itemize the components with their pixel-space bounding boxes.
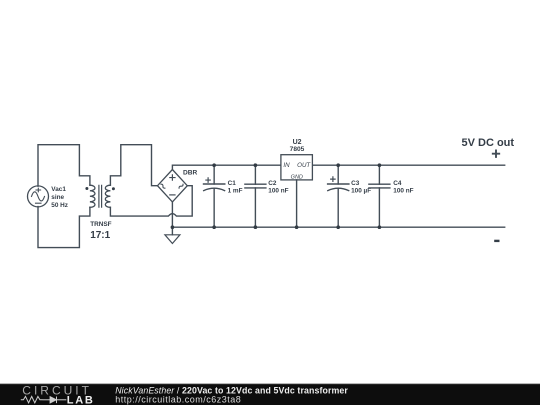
svg-text:C3: C3 <box>351 180 360 187</box>
node + terminal <box>493 151 499 157</box>
wire secondary bottom to bridge (with hop) <box>110 186 192 216</box>
svg-text:C2: C2 <box>268 180 277 187</box>
svg-text:OUT: OUT <box>297 162 311 169</box>
svg-text:DBR: DBR <box>183 170 198 177</box>
wire primary bottom <box>38 207 90 248</box>
node 5V DC out <box>462 137 515 149</box>
transformer TRNSF primary winding <box>90 185 95 207</box>
label C3 100 uF <box>351 180 371 195</box>
transformer TRNSF secondary winding <box>105 185 110 207</box>
node junction bottom rail C2 <box>254 225 258 229</box>
node junction top rail C2 <box>254 163 258 167</box>
voltage source Vac1 <box>28 186 49 207</box>
label TRNSF 17:1 <box>90 221 111 241</box>
svg-text:C1: C1 <box>228 180 237 187</box>
svg-text:Vac1: Vac1 <box>51 186 66 193</box>
label U2 7805 <box>283 139 311 180</box>
wire primary top <box>38 145 90 187</box>
svg-text:C4: C4 <box>393 180 402 187</box>
transformer polarity dot secondary <box>112 187 115 190</box>
node junction top rail C1 <box>212 163 216 167</box>
svg-text:sine: sine <box>51 194 64 201</box>
capacitor C1 <box>204 165 225 227</box>
svg-text:100 nF: 100 nF <box>268 188 288 195</box>
node junction top rail C3 <box>336 163 340 167</box>
wire top rail (bridge + to regulator IN) <box>172 165 281 169</box>
transformer core <box>99 185 102 207</box>
svg-text:IN: IN <box>283 162 290 169</box>
label C1 1 mF <box>228 180 243 195</box>
svg-text:100 µF: 100 µF <box>351 188 371 195</box>
svg-text:50 Hz: 50 Hz <box>51 202 68 209</box>
svg-text:17:1: 17:1 <box>90 230 110 241</box>
svg-text:LAB: LAB <box>67 394 95 405</box>
capacitor C2 <box>245 165 266 227</box>
svg-text:http://circuitlab.com/c6z3ta8: http://circuitlab.com/c6z3ta8 <box>115 394 241 404</box>
wire top rail (regulator OUT to output) <box>312 164 504 166</box>
CircuitLab logo <box>21 383 95 405</box>
svg-text:GND: GND <box>291 174 303 180</box>
transformer polarity dot primary <box>85 187 88 190</box>
svg-text:5V DC out: 5V DC out <box>462 137 515 149</box>
capacitor C4 <box>369 165 390 227</box>
node junction bottom rail C1 <box>212 225 216 229</box>
diode bridge DBR <box>158 170 188 202</box>
node - terminal <box>494 240 499 242</box>
node junction bottom rail GND pin <box>295 225 299 229</box>
svg-text:7805: 7805 <box>290 146 305 153</box>
label C2 100 nF <box>268 180 288 195</box>
label Vac1 sine 50 Hz <box>51 186 68 209</box>
voltage regulator U2 7805 <box>281 155 313 228</box>
svg-text:TRNSF: TRNSF <box>90 221 111 228</box>
footer bar <box>0 384 540 405</box>
label C4 100 nF <box>393 180 413 195</box>
wire bottom rail <box>172 202 504 227</box>
node junction bottom rail ground <box>171 225 175 229</box>
svg-text:U2: U2 <box>293 139 302 146</box>
node junction bottom rail C3 <box>336 225 340 229</box>
node junction top rail C4 <box>378 163 382 167</box>
capacitor C3 <box>328 165 349 227</box>
svg-text:1 mF: 1 mF <box>228 188 243 195</box>
node junction bottom rail C4 <box>378 225 382 229</box>
wire secondary top to bridge <box>110 145 157 186</box>
svg-text:100 nF: 100 nF <box>393 188 413 195</box>
ground <box>165 227 180 243</box>
